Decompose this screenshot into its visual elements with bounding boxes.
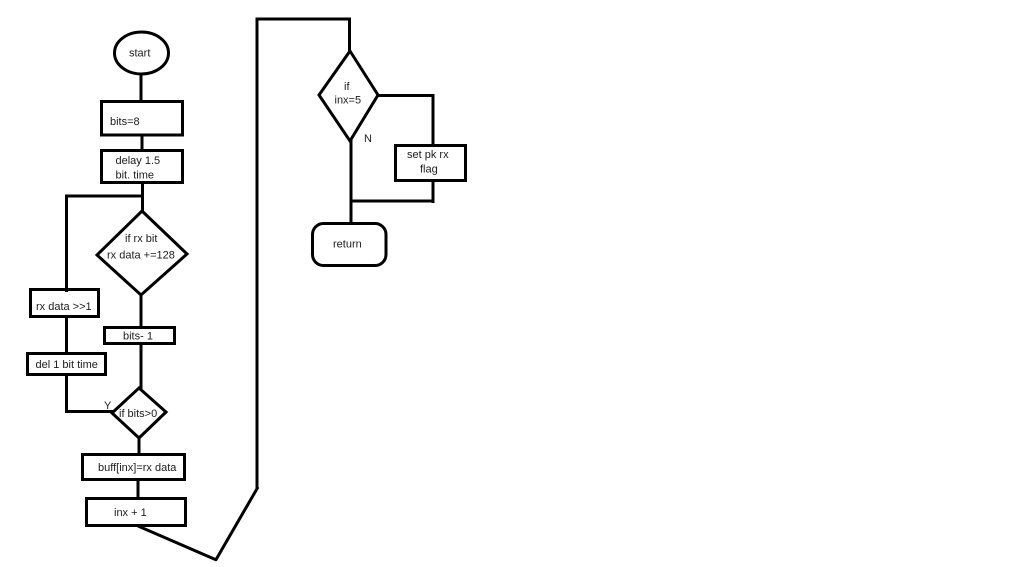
svg-text:if bits>0: if bits>0 bbox=[119, 408, 157, 420]
svg-text:if rx bit: if rx bit bbox=[125, 233, 157, 245]
svg-text:bit. time: bit. time bbox=[116, 170, 155, 182]
wire horizontal join at y=201.5 bbox=[350, 200, 435, 203]
wire horizontal into small diamond bbox=[65, 410, 114, 413]
wire loop branch horizontal y=196 bbox=[65, 195, 144, 198]
process bits=8 bbox=[102, 102, 183, 136]
wire del 1 bit time down bbox=[65, 374, 68, 413]
wire top diamond right branch horizontal bbox=[377, 94, 435, 97]
wire bits=8 to delay bbox=[141, 135, 144, 151]
svg-text:inx + 1: inx + 1 bbox=[114, 507, 147, 519]
wire loop branch vertical left down to rx data box bbox=[65, 195, 68, 293]
wire top diamond bottom to return bbox=[350, 140, 353, 223]
decision if bits>0 (small diamond) bbox=[112, 388, 166, 438]
svg-text:delay 1.5: delay 1.5 bbox=[116, 155, 161, 167]
wire start to bits=8 bbox=[140, 74, 143, 101]
wire rx data to del 1 bit time bbox=[65, 317, 68, 354]
svg-text:start: start bbox=[129, 48, 150, 60]
wire down to top diamond bbox=[348, 18, 351, 54]
wire delay to big diamond bbox=[141, 182, 144, 213]
process inx + 1 bbox=[87, 499, 186, 526]
svg-text:set pk rx: set pk rx bbox=[407, 149, 449, 161]
process bits- 1 bbox=[105, 328, 175, 344]
wire diagonal up right bbox=[216, 487, 259, 561]
process buff[inx]=rx data bbox=[83, 455, 185, 480]
svg-text:if: if bbox=[344, 81, 350, 93]
wire set pk rx flag down bbox=[432, 180, 435, 203]
return terminal (rounded rect) bbox=[313, 224, 387, 266]
svg-text:bits- 1: bits- 1 bbox=[123, 331, 153, 343]
svg-text:rx data >>1: rx data >>1 bbox=[36, 301, 92, 313]
svg-text:buff[inx]=rx data: buff[inx]=rx data bbox=[98, 462, 177, 474]
wire diagonal from inx + 1 down right bbox=[138, 526, 217, 560]
wire bits- 1 to small diamond bbox=[140, 343, 143, 390]
wire down to set pk rx flag bbox=[432, 94, 435, 146]
svg-text:rx data +=128: rx data +=128 bbox=[107, 250, 175, 262]
svg-text:N: N bbox=[364, 133, 372, 145]
svg-text:inx=5: inx=5 bbox=[335, 95, 362, 107]
wire small diamond to buff box bbox=[138, 437, 141, 455]
decision if inx=5 (top diamond) bbox=[319, 51, 378, 141]
wire long vertical up right side bbox=[256, 18, 259, 489]
svg-text:bits=8: bits=8 bbox=[110, 116, 140, 128]
process rx data >>1 bbox=[31, 290, 99, 317]
wire top horizontal bbox=[256, 18, 351, 21]
decision if rx bit rx data +=128 (big diamond) bbox=[97, 211, 187, 295]
wire big diamond to bits- 1 bbox=[140, 294, 143, 328]
svg-text:del 1 bit time: del 1 bit time bbox=[36, 359, 98, 371]
process delay 1.5 bit. time bbox=[102, 151, 183, 183]
process set pk rx flag bbox=[396, 146, 466, 181]
svg-text:flag: flag bbox=[420, 164, 438, 176]
svg-text:Y: Y bbox=[104, 400, 112, 412]
svg-text:return: return bbox=[333, 239, 362, 251]
wire buff box to inx + 1 bbox=[137, 479, 140, 499]
start terminal (ellipse) bbox=[115, 32, 169, 74]
process del 1 bit time bbox=[28, 354, 106, 375]
